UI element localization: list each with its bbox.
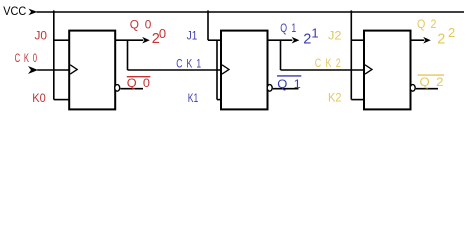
flip-flop U2 box bbox=[221, 31, 268, 110]
svg-text:0: 0 bbox=[159, 26, 166, 41]
flip-flop U2 Q-bar bubble bbox=[267, 85, 272, 92]
wire K0 input bbox=[54, 99, 69, 101]
svg-text:Q 2: Q 2 bbox=[420, 75, 444, 89]
svg-text:2: 2 bbox=[437, 31, 445, 47]
svg-text:J2: J2 bbox=[328, 29, 342, 43]
svg-text:J1: J1 bbox=[187, 29, 198, 43]
wire K2 input bbox=[351, 99, 364, 101]
svg-text:Q 1: Q 1 bbox=[277, 77, 301, 91]
wire Q1 to CK2 vertical drop bbox=[280, 40, 282, 70]
flip-flop U3 Q-bar bubble bbox=[410, 85, 415, 92]
label Q-bar 1 overline bbox=[277, 75, 301, 77]
svg-text:1: 1 bbox=[311, 26, 318, 41]
wire VCC drop to J2/K2 feeder bbox=[350, 10, 352, 99]
flip-flop U3 box bbox=[364, 31, 411, 110]
svg-text:C K 2: C K 2 bbox=[315, 56, 341, 70]
svg-text:K2: K2 bbox=[328, 90, 342, 104]
svg-text:Q 1: Q 1 bbox=[280, 21, 296, 35]
wire Q-bar 2 output bbox=[416, 88, 438, 90]
wire CK2 clock bbox=[281, 69, 365, 71]
Q0 output arrow bbox=[142, 37, 150, 44]
svg-text:Q 2: Q 2 bbox=[417, 17, 437, 31]
wire VCC top rail bbox=[37, 11, 465, 13]
wire J1 input bbox=[208, 39, 221, 41]
wire Q0 to CK1 vertical drop bbox=[127, 40, 129, 70]
svg-text:2: 2 bbox=[303, 32, 311, 48]
svg-text:VCC: VCC bbox=[3, 6, 26, 18]
flip-flop U1 Q-bar bubble bbox=[115, 85, 120, 92]
flip-flop U3 clock edge triangle bbox=[365, 65, 372, 74]
label Q-bar 2 overline bbox=[418, 74, 445, 76]
svg-text:2: 2 bbox=[448, 25, 455, 40]
wire CK0 clock input bbox=[37, 69, 69, 71]
svg-text:Q 0: Q 0 bbox=[127, 76, 151, 90]
Q1 output arrow bbox=[292, 37, 300, 44]
Q2 output arrow bbox=[423, 37, 431, 44]
wire CK1 clock bbox=[128, 69, 222, 71]
svg-text:K1: K1 bbox=[188, 91, 199, 105]
wire Q1 output bbox=[268, 39, 293, 41]
CK0 clock input arrow bbox=[28, 66, 38, 74]
svg-text:Q 0: Q 0 bbox=[130, 17, 152, 31]
wire VCC drop to J0/K0 feeder bbox=[53, 10, 55, 99]
label Q-bar 0 overline bbox=[127, 76, 151, 78]
wire K1 input bbox=[217, 99, 221, 101]
wire Q0 output bbox=[115, 39, 143, 41]
flip-flop U1 clock edge triangle bbox=[70, 65, 77, 74]
VCC input arrow bbox=[28, 9, 37, 16]
svg-text:J0: J0 bbox=[35, 29, 48, 43]
wire J2 input bbox=[351, 39, 364, 41]
wire Q-bar 0 output bbox=[120, 88, 143, 90]
wire VCC drop to J1 bbox=[207, 10, 209, 40]
wire Q2 output bbox=[411, 39, 425, 41]
wire Q-bar 1 output bbox=[273, 88, 299, 90]
svg-text:C K 1: C K 1 bbox=[176, 56, 201, 70]
flip-flop U1 box bbox=[69, 31, 115, 110]
svg-text:K0: K0 bbox=[32, 91, 46, 105]
wire J0 input bbox=[54, 39, 69, 41]
wire J1-to-K1 feeder bbox=[216, 40, 218, 99]
flip-flop U2 clock edge triangle bbox=[222, 65, 229, 74]
svg-text:C K 0: C K 0 bbox=[15, 51, 38, 65]
